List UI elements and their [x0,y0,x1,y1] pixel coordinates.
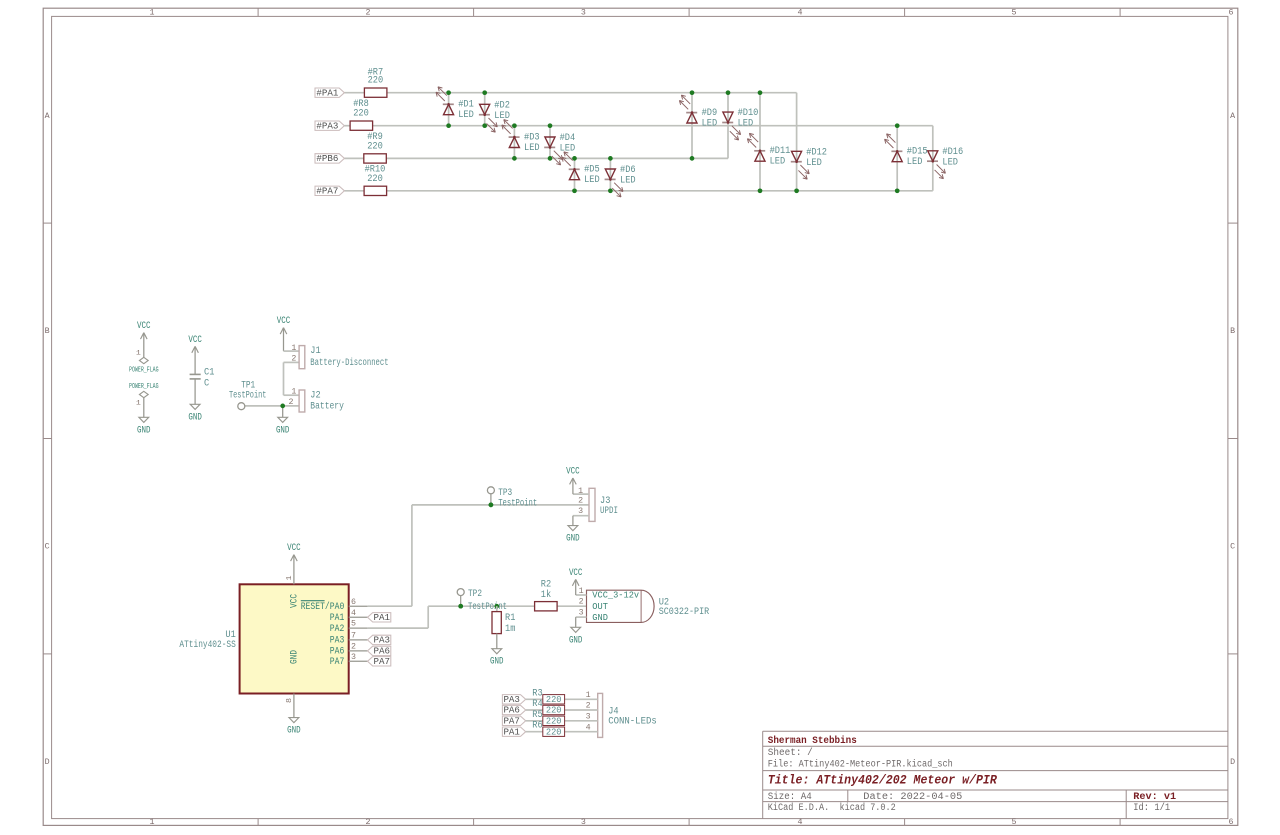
svg-text:LED: LED [584,175,600,186]
svg-text:#D10: #D10 [738,108,759,119]
svg-text:Sheet: /: Sheet: / [768,747,813,759]
svg-text:GND: GND [290,650,301,664]
svg-text:J1: J1 [310,346,320,357]
svg-text:4: 4 [798,8,803,17]
svg-text:KiCad E.D.A. kicad 7.0.2: KiCad E.D.A. kicad 7.0.2 [768,802,896,814]
svg-text:220: 220 [546,694,562,705]
svg-text:Size: A4: Size: A4 [768,791,812,803]
svg-text:PA7: PA7 [503,716,520,727]
svg-text:C: C [45,543,50,552]
svg-text:1: 1 [291,344,296,353]
svg-text:#D15: #D15 [907,147,928,158]
svg-text:TP3: TP3 [498,488,512,499]
svg-text:3: 3 [581,8,586,17]
svg-text:LED: LED [738,119,754,130]
svg-text:R3: R3 [532,688,542,699]
svg-text:PA6: PA6 [374,646,391,657]
svg-text:OUT: OUT [592,601,608,612]
svg-text:1: 1 [579,587,584,596]
svg-text:3: 3 [579,609,584,618]
svg-text:2: 2 [578,496,583,505]
svg-text:2: 2 [579,598,584,607]
svg-text:PA2: PA2 [330,623,345,634]
svg-text:D: D [45,758,50,767]
svg-text:VCC: VCC [287,543,301,554]
svg-text:6: 6 [1229,8,1234,17]
svg-text:4: 4 [798,818,803,827]
svg-text:PA3: PA3 [330,635,345,646]
svg-text:R5: R5 [532,710,542,721]
svg-text:Sherman Stebbins: Sherman Stebbins [768,735,857,747]
svg-text:Battery: Battery [310,401,344,412]
svg-text:7: 7 [351,632,356,641]
svg-text:GND: GND [490,657,504,668]
svg-text:2: 2 [289,398,294,407]
svg-text:GND: GND [592,612,608,623]
svg-text:R4: R4 [532,699,542,710]
svg-text:1: 1 [291,388,296,397]
svg-text:2: 2 [291,355,296,364]
svg-text:220: 220 [546,716,562,727]
svg-text:#PA1: #PA1 [316,87,338,98]
svg-text:PA7: PA7 [374,656,391,667]
svg-text:6: 6 [351,598,356,607]
svg-text:PA1: PA1 [503,726,520,737]
svg-text:SC0322-PIR: SC0322-PIR [659,607,710,618]
svg-text:3: 3 [351,653,356,662]
svg-text:#D4: #D4 [560,133,576,144]
svg-text:R6: R6 [532,721,542,732]
svg-text:1: 1 [136,349,141,356]
svg-text:LED: LED [524,143,540,154]
svg-text:GND: GND [188,412,202,423]
svg-text:#D6: #D6 [620,165,636,176]
svg-text:#PA7: #PA7 [316,186,338,197]
svg-text:File: ATtiny402-Meteor-PIR.kic: File: ATtiny402-Meteor-PIR.kicad_sch [768,759,953,771]
svg-text:R2: R2 [541,580,551,591]
svg-text:POWER_FLAG: POWER_FLAG [129,383,159,391]
svg-text:#D9: #D9 [702,108,718,119]
svg-text:220: 220 [546,705,562,716]
svg-text:#PA3: #PA3 [316,120,338,131]
svg-text:220: 220 [353,109,369,120]
svg-text:3: 3 [581,818,586,827]
svg-text:Rev: v1: Rev: v1 [1133,791,1176,803]
svg-text:VCC: VCC [290,594,301,608]
svg-text:4: 4 [351,609,356,618]
svg-text:LED: LED [770,157,786,168]
svg-text:UPDI: UPDI [600,506,618,517]
svg-text:C: C [204,379,209,390]
svg-text:POWER_FLAG: POWER_FLAG [129,366,159,374]
svg-text:Title: ATtiny402/202 Meteor w/: Title: ATtiny402/202 Meteor w/PIR [768,773,997,788]
svg-text:4: 4 [586,723,591,732]
svg-text:LED: LED [458,110,474,121]
svg-text:Battery-Disconnect: Battery-Disconnect [310,357,388,369]
svg-text:2: 2 [351,643,356,652]
svg-text:PA7: PA7 [330,656,345,667]
svg-text:A: A [45,112,50,121]
svg-text:1m: 1m [505,624,515,635]
svg-text:220: 220 [368,76,384,87]
svg-text:LED: LED [942,157,958,168]
svg-text:PA3: PA3 [374,635,391,646]
svg-text:PA3: PA3 [503,694,520,705]
svg-text:B: B [45,327,50,336]
svg-text:#D16: #D16 [942,147,963,158]
svg-text:1: 1 [150,818,155,827]
svg-text:#D2: #D2 [494,100,510,111]
svg-text:PA6: PA6 [503,705,520,716]
svg-text:#PB6: #PB6 [316,153,338,164]
svg-text:220: 220 [367,174,383,185]
svg-text:#D12: #D12 [806,147,827,158]
svg-text:R1: R1 [505,613,515,624]
svg-text:RESET/PA0: RESET/PA0 [301,601,345,612]
svg-text:8: 8 [286,698,294,703]
svg-text:GND: GND [566,534,580,545]
svg-text:VCC: VCC [137,321,151,332]
svg-text:VCC: VCC [277,316,291,327]
svg-text:2: 2 [586,702,591,711]
svg-text:LED: LED [907,157,923,168]
svg-text:VCC_3-12v: VCC_3-12v [592,590,639,601]
svg-text:1: 1 [150,8,155,17]
svg-text:CONN-LEDs: CONN-LEDs [608,717,657,728]
svg-text:Date: 2022-04-05: Date: 2022-04-05 [863,792,962,803]
svg-text:GND: GND [137,425,151,436]
svg-text:LED: LED [702,118,718,129]
svg-text:#D11: #D11 [770,146,791,157]
svg-text:LED: LED [806,158,822,169]
svg-text:GND: GND [287,726,301,737]
svg-text:6: 6 [1229,818,1234,827]
svg-text:LED: LED [620,176,636,187]
svg-text:1: 1 [136,399,141,406]
svg-text:TP2: TP2 [468,589,482,600]
svg-text:PA1: PA1 [330,612,345,623]
svg-text:#D5: #D5 [584,165,600,176]
svg-text:ATtiny402-SS: ATtiny402-SS [179,639,235,651]
svg-text:GND: GND [276,425,290,436]
svg-text:C1: C1 [204,367,214,378]
svg-text:1: 1 [578,487,583,496]
svg-text:PA6: PA6 [330,646,345,657]
svg-text:PA1: PA1 [374,612,391,623]
svg-text:5: 5 [1012,8,1017,17]
svg-text:VCC: VCC [566,467,580,478]
svg-text:220: 220 [546,726,562,737]
svg-text:5: 5 [1012,818,1017,827]
svg-text:3: 3 [586,712,591,721]
svg-text:#D1: #D1 [458,100,474,111]
svg-text:J2: J2 [310,391,320,402]
svg-text:1: 1 [586,691,591,700]
svg-text:2: 2 [366,818,371,827]
svg-text:TestPoint: TestPoint [498,497,537,509]
svg-text:3: 3 [578,507,583,516]
svg-text:D: D [1230,758,1235,767]
svg-text:Id: 1/1: Id: 1/1 [1133,802,1170,814]
svg-text:2: 2 [366,8,371,17]
svg-text:1: 1 [286,576,294,581]
svg-text:B: B [1230,327,1235,336]
svg-text:220: 220 [367,141,383,152]
svg-text:5: 5 [351,620,356,629]
svg-text:VCC: VCC [569,568,583,579]
svg-text:#D3: #D3 [524,132,540,143]
svg-text:A: A [1230,112,1235,121]
svg-text:C: C [1230,543,1235,552]
svg-text:TestPoint: TestPoint [229,390,267,402]
svg-text:GND: GND [569,635,583,646]
svg-text:1k: 1k [541,589,551,601]
svg-text:VCC: VCC [188,335,202,346]
